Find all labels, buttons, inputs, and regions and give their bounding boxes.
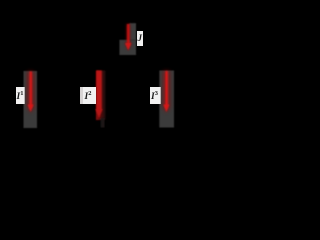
current arrow I3 glow xyxy=(163,71,171,113)
current density arrow J glow xyxy=(125,24,132,51)
label box I3 xyxy=(150,87,161,104)
slab S1 (top narrow gray bar) xyxy=(129,23,136,40)
current arrow I3 (red, pointing down) xyxy=(164,71,170,112)
label box I1 xyxy=(16,87,26,104)
current arrow I1 (red, pointing down) xyxy=(28,72,34,113)
faint lower stub of W2 xyxy=(101,118,105,128)
current density arrow J (red, pointing down) xyxy=(125,24,131,50)
wire bar W2 (middle, dark red shaded cylinder) xyxy=(96,71,106,121)
slab S2 (top wide gray block) xyxy=(119,40,136,55)
current arrow I2 (bright red, pointing down) xyxy=(95,71,102,119)
wire bar W3 (right gray cylinder) xyxy=(159,71,174,128)
label box I2 xyxy=(80,87,96,104)
current arrow I1 glow xyxy=(27,72,35,113)
label box J xyxy=(137,31,144,46)
wire bar W1 (left gray cylinder) xyxy=(24,71,38,128)
